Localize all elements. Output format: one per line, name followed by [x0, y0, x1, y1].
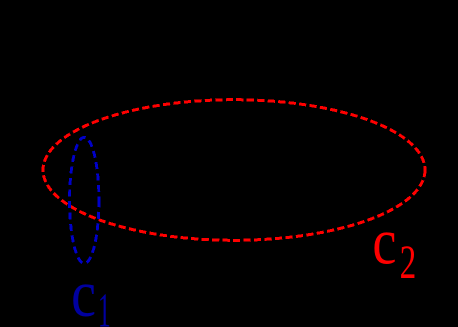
svg-text:c: c [372, 205, 396, 278]
svg-text:2: 2 [400, 236, 417, 288]
svg-text:c: c [71, 258, 96, 327]
svg-text:1: 1 [98, 284, 111, 327]
